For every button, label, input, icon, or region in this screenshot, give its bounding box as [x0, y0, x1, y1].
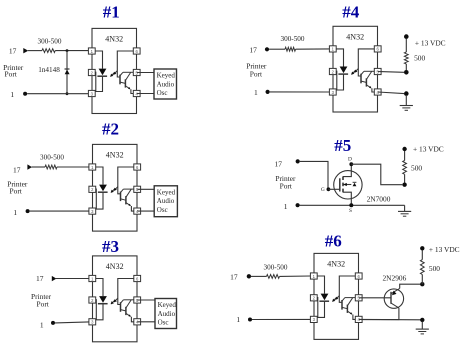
svg-text:D: D — [348, 156, 352, 162]
pin 6 of U2 — [134, 164, 141, 170]
wire resistor to emitter node — [421, 275, 423, 285]
wire emitter to supply node — [400, 284, 423, 288]
pin 2 of U6 — [310, 295, 317, 301]
wire collector to keyed audio osc — [137, 72, 154, 74]
wire gate lead — [328, 188, 339, 190]
wire from pin 17 to pin 1 of U3 — [56, 278, 89, 280]
light arrows U1 — [111, 73, 115, 77]
svg-text:1: 1 — [284, 202, 288, 211]
resistor 300-500 (circuit 1) — [42, 49, 55, 53]
svg-text:#5: #5 — [334, 136, 351, 155]
light arrows U3 — [111, 300, 115, 304]
phototransistor darlington U4 — [360, 74, 362, 84]
pin 5 of U2 — [134, 186, 141, 192]
svg-text:G: G — [321, 187, 325, 193]
pin 6 of U4 — [374, 46, 381, 52]
diode 1n4148 — [66, 51, 68, 94]
pin 5 of U3 — [134, 297, 141, 303]
pin 4 of U3 — [134, 319, 141, 325]
pin 4 of U6 — [355, 316, 362, 322]
pin 3 of U2 — [89, 208, 96, 214]
svg-text:+ 13 VDC: + 13 VDC — [415, 38, 446, 47]
wire anode U1 — [95, 51, 102, 69]
wire from pin 1 terminal to pin 3 of U2 — [30, 210, 89, 212]
svg-text:300-500: 300-500 — [264, 264, 288, 272]
+13 VDC supply terminal (circuit 4) — [404, 34, 409, 39]
svg-text:4N32: 4N32 — [106, 262, 124, 271]
svg-text:Port: Port — [5, 70, 18, 79]
svg-text:4N32: 4N32 — [105, 35, 123, 44]
LED inside U2 — [99, 185, 107, 192]
svg-text:17: 17 — [274, 159, 282, 168]
node emitter-ground (circuit 4) — [404, 91, 409, 96]
ground (circuit 6) — [421, 322, 423, 330]
ground (circuit 5) — [404, 205, 406, 211]
pin 1 of U2 — [89, 164, 96, 170]
svg-text:4N32: 4N32 — [327, 260, 345, 269]
light arrows U6 — [333, 298, 337, 302]
optocoupler U2 4N32 body — [93, 144, 138, 231]
svg-text:4N32: 4N32 — [106, 151, 124, 160]
node collector-ground junction — [420, 318, 424, 322]
svg-text:#6: #6 — [325, 232, 342, 251]
wire supply to resistor 500 (circuit 5) — [404, 151, 406, 161]
phototransistor darlington U6 — [341, 300, 343, 310]
wire emitter U6 to pin 4 — [353, 315, 355, 320]
node collector (circuit 4) — [404, 70, 409, 75]
node S source — [349, 203, 353, 207]
MOSFET Q1 2N7000 — [334, 171, 362, 199]
svg-text:1: 1 — [10, 90, 14, 99]
pin 5 of U4 — [374, 68, 381, 74]
pin 3 of U3 — [89, 319, 96, 325]
wire collector to ground rail — [362, 308, 399, 320]
pin 5 of U1 — [133, 69, 140, 75]
keyed audio osc box — [154, 69, 177, 99]
wire emitter U4 to pin 4 — [372, 88, 374, 92]
wire from pin 1 terminal to pin 3 of U6 — [252, 318, 310, 320]
wire resistor to drain node — [404, 174, 406, 184]
wire from pin 17 to resistor (circuit 2) — [32, 166, 45, 168]
svg-text:Keyed: Keyed — [157, 188, 176, 196]
node resistor-drain junction — [402, 183, 406, 187]
svg-text:17: 17 — [249, 45, 257, 54]
svg-text:1: 1 — [13, 208, 17, 217]
wire emitter U2 to pin 4 — [131, 206, 133, 211]
phototransistor darlington U1 — [119, 75, 121, 85]
node G gate junction — [327, 187, 331, 191]
keyed audio osc box — [154, 186, 177, 217]
pin 3 of U6 — [310, 316, 317, 322]
pin 6 of U1 — [133, 48, 140, 54]
wire cathode U3 to pin 2 — [96, 300, 103, 320]
svg-text:+ 13 VDC: + 13 VDC — [429, 245, 460, 254]
pin 1 of U1 — [88, 48, 95, 54]
wire from pin 1 terminal to pin 3 of U1 — [27, 93, 88, 95]
ground (circuit 4) — [405, 95, 407, 106]
wire from pin 17 to resistor — [28, 50, 42, 52]
svg-text:1: 1 — [40, 320, 44, 329]
pin 4 of U4 — [374, 89, 381, 95]
wire emitter to keyed audio osc — [137, 210, 154, 212]
wire cathode U1 to pin 2 — [95, 72, 102, 91]
wire base U3 from pin 6 — [118, 279, 134, 305]
wire emitter U3 to pin 4 — [131, 317, 133, 322]
svg-text:1: 1 — [254, 88, 258, 97]
svg-text:Audio: Audio — [157, 80, 175, 88]
wire base U4 from pin 6 — [358, 49, 374, 76]
wire emitter U1 to pin 4 — [131, 89, 133, 93]
svg-text:1: 1 — [236, 315, 240, 324]
+13 VDC supply terminal (circuit 5) — [402, 147, 406, 151]
wire cathode U6 to pin 2 — [317, 298, 324, 318]
svg-text:Audio: Audio — [157, 197, 175, 205]
wire anode U2 — [96, 167, 103, 185]
svg-text:Keyed: Keyed — [158, 301, 177, 309]
wire resistor to pin 1 of U1 — [55, 50, 88, 52]
svg-text:500: 500 — [414, 54, 425, 63]
pin 3 of U1 — [88, 90, 95, 96]
light arrows U2 — [111, 189, 115, 193]
LED inside U3 — [99, 296, 107, 303]
wire emitter to keyed audio osc — [137, 321, 155, 323]
svg-text:1n4148: 1n4148 — [38, 66, 60, 74]
resistor 500 (circuit 5) — [403, 161, 407, 175]
svg-text:17: 17 — [9, 47, 17, 56]
pin 2 of U1 — [88, 69, 95, 75]
svg-text:500: 500 — [429, 264, 440, 273]
junction node diode bottom — [66, 92, 69, 95]
svg-text:Osc: Osc — [157, 206, 168, 214]
svg-text:Keyed: Keyed — [157, 72, 176, 80]
svg-text:4N32: 4N32 — [346, 32, 364, 41]
wire resistor to pin 1 of U6 — [280, 275, 311, 277]
wire drain to resistor 500 — [351, 164, 402, 185]
wire emitter to keyed audio osc — [137, 93, 154, 95]
LED inside U6 — [321, 294, 329, 301]
wire pin 4 of U6 to ground — [359, 318, 422, 320]
svg-text:Osc: Osc — [157, 89, 168, 97]
svg-text:2N7000: 2N7000 — [367, 194, 391, 203]
LED inside U1 — [99, 69, 107, 76]
node emitter-resistor junction — [420, 282, 424, 286]
wire ground rail (circuit 5) — [300, 204, 405, 206]
pin 2 of U2 — [89, 186, 96, 192]
svg-text:Audio: Audio — [158, 310, 176, 318]
wire from pin 17 to resistor (circuit 4) — [269, 48, 285, 50]
optocoupler U3 4N32 body — [93, 256, 138, 342]
wire collector to keyed audio osc — [137, 299, 155, 301]
wire anode U4 — [336, 49, 343, 67]
phototransistor darlington U3 — [120, 302, 122, 312]
svg-text:Port: Port — [280, 182, 293, 191]
wire resistor to collector node — [405, 64, 407, 72]
svg-text:+ 13 VDC: + 13 VDC — [413, 145, 444, 154]
keyed audio osc box — [155, 299, 177, 329]
wire anode U6 — [317, 276, 324, 294]
wire from pin 1 terminal to pin 3 of U3 — [55, 322, 89, 323]
svg-text:300-500: 300-500 — [38, 37, 62, 45]
wire supply to resistor 500 (circuit 6) — [421, 250, 423, 259]
svg-text:300-500: 300-500 — [281, 35, 305, 43]
pin 1 of U6 — [310, 273, 317, 279]
resistor 500 (circuit 6) — [420, 260, 424, 275]
optocoupler U6 4N32 body — [314, 253, 359, 339]
wire anode U3 — [96, 279, 103, 297]
svg-text:#4: #4 — [342, 2, 360, 21]
+13 VDC supply terminal (circuit 6) — [420, 246, 424, 250]
pin 4 of U2 — [134, 208, 141, 214]
svg-text:17: 17 — [13, 165, 21, 174]
pin 3 of U4 — [329, 89, 336, 95]
pin 4 of U1 — [133, 90, 140, 96]
pin 2 of U3 — [89, 297, 96, 303]
wire collector to keyed audio osc — [137, 188, 154, 190]
pin 1 of U4 — [329, 46, 336, 52]
pin 5 of U6 — [355, 295, 362, 301]
pin 6 of U3 — [134, 275, 141, 281]
svg-text:17: 17 — [230, 273, 238, 282]
pin 6 of U6 — [355, 273, 362, 279]
wire pin 5 of U6 to base of Q2 — [359, 297, 391, 299]
phototransistor darlington U2 — [120, 192, 122, 202]
svg-text:Port: Port — [250, 69, 263, 78]
wire cathode U4 to pin 2 — [336, 71, 343, 90]
light arrows U4 — [352, 71, 356, 75]
svg-text:#1: #1 — [103, 2, 120, 21]
node D drain — [349, 162, 353, 166]
wire base U1 from pin 6 — [117, 51, 133, 77]
wire pin 5 of U4 to collector node — [378, 71, 404, 74]
LED inside U4 — [340, 67, 348, 74]
junction node diode top — [66, 49, 69, 52]
svg-text:#2: #2 — [102, 119, 119, 138]
svg-text:Osc: Osc — [158, 319, 169, 327]
wire from pin 1 terminal to pin 3 of U4 — [270, 91, 330, 93]
resistor 500 (circuit 4) — [404, 52, 408, 64]
svg-text:17: 17 — [36, 274, 44, 283]
wire supply to resistor 500 — [405, 39, 407, 53]
wire pin 17 to gate of Q1 — [300, 161, 328, 189]
wire resistor to pin 1 of U4 — [296, 48, 330, 50]
resistor 300-500 (circuit 4) — [285, 47, 296, 51]
optocoupler U4 4N32 body — [333, 26, 378, 112]
resistor 300-500 (circuit 6) — [267, 275, 280, 279]
svg-text:Port: Port — [10, 186, 23, 195]
svg-text:#3: #3 — [102, 237, 119, 256]
svg-text:Port: Port — [37, 300, 50, 309]
pin 1 of U3 — [89, 275, 96, 281]
optocoupler U1 4N32 body — [92, 28, 137, 113]
svg-text:2N2906: 2N2906 — [382, 274, 406, 283]
wire base U6 from pin 6 — [339, 276, 355, 302]
pin 2 of U4 — [329, 68, 336, 74]
transistor Q2 2N2906 — [384, 289, 403, 308]
wire resistor to pin 1 of U2 — [57, 166, 89, 168]
resistor 300-500 (circuit 2) — [45, 165, 57, 169]
wire pin 17 to resistor (circuit 6) — [251, 275, 267, 277]
wire pin 4 of U4 to ground — [378, 92, 404, 94]
svg-text:S: S — [349, 208, 352, 214]
svg-text:500: 500 — [411, 163, 422, 172]
svg-text:300-500: 300-500 — [40, 153, 64, 161]
wire base U2 from pin 6 — [118, 167, 134, 194]
wire cathode U2 to pin 2 — [96, 189, 103, 209]
